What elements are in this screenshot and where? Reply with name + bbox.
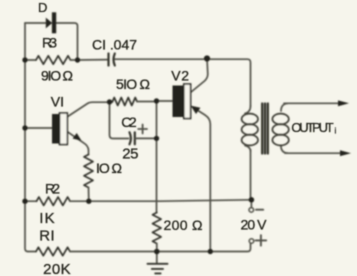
svg-text:20 V: 20 V [241,216,268,232]
svg-text:D: D [38,0,47,15]
svg-text:25: 25 [122,145,138,162]
svg-text:200 Ω: 200 Ω [164,217,203,233]
svg-text:20K: 20K [43,261,71,276]
svg-text:CI .047: CI .047 [92,36,137,52]
svg-text:R I: R I [39,228,55,245]
svg-text:5IO Ω: 5IO Ω [116,76,150,92]
svg-text:R 3: R 3 [42,35,57,51]
svg-text:IO Ω: IO Ω [96,160,122,176]
svg-text:V I: V I [51,94,64,110]
svg-text:C2: C2 [121,114,137,130]
svg-text:R2: R2 [45,181,60,197]
svg-text:9IO Ω: 9IO Ω [41,68,73,84]
svg-text:I K: I K [39,210,55,227]
svg-text:OUTPUT: OUTPUT [291,120,333,135]
svg-text:i: i [335,127,337,136]
svg-text:V 2: V 2 [171,67,189,83]
